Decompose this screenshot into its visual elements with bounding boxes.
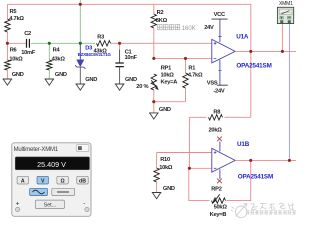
svg-text:R2: R2 [157, 10, 164, 16]
annotation gray note 160K for R2 [158, 25, 180, 30]
multimeter XMM1 instrument icon [277, 1, 293, 23]
node junction dots green net [48, 42, 82, 45]
wire left column through R5 [6, 4, 8, 43]
svg-text:50kΩ: 50kΩ [214, 205, 228, 211]
svg-text:A: A [21, 179, 25, 185]
svg-text:RP1: RP1 [161, 66, 171, 72]
svg-text:Key=B: Key=B [210, 212, 227, 218]
svg-text:VSS: VSS [207, 81, 218, 87]
svg-text:10kΩ: 10kΩ [161, 73, 175, 79]
ground for D3 [76, 84, 86, 90]
op-amp U1A [212, 19, 272, 85]
svg-text:Ω: Ω [61, 179, 65, 185]
svg-text:10kΩ: 10kΩ [9, 56, 23, 62]
svg-text:U1A: U1A [236, 34, 249, 41]
svg-text:R6: R6 [10, 48, 17, 54]
wire main node line red section R3 to U1A + input [111, 42, 212, 44]
svg-text:GND: GND [159, 107, 171, 113]
ground for C1 [115, 84, 125, 90]
svg-text:Key=A: Key=A [161, 80, 178, 86]
resistor R1 [183, 58, 203, 101]
svg-text:XMM1: XMM1 [279, 1, 293, 7]
svg-text:dB: dB [79, 179, 86, 185]
svg-text:8KΩ: 8KΩ [156, 18, 168, 24]
svg-text:GND: GND [125, 77, 137, 83]
resistor R5 [5, 9, 25, 32]
power VCC 24V [204, 12, 227, 31]
wire green riser from top edge to zener node [79, 0, 81, 43]
wire XMM1 - probe (blue) [288, 24, 290, 161]
svg-text:GND: GND [85, 77, 97, 83]
resistor R10 [154, 153, 173, 193]
svg-text:U1B: U1B [237, 141, 250, 148]
svg-text:R4: R4 [53, 48, 61, 54]
svg-text:+: + [16, 200, 20, 207]
wire U1B non-inverting input line [157, 152, 212, 154]
svg-text:OPA2541SM: OPA2541SM [236, 62, 271, 69]
no-connect X marks U1B power pins [217, 137, 222, 184]
watermark logo and text (decorative) [231, 204, 247, 218]
op-amp U1B [212, 141, 273, 181]
svg-text:R8: R8 [213, 110, 220, 116]
wire U1A output line [235, 50, 296, 52]
wire XMM1 + probe (red) [281, 24, 283, 52]
svg-text:BZX84C6V2LT1G: BZX84C6V2LT1G [78, 52, 112, 57]
ground for RP1 R1 [149, 113, 159, 119]
wire main node line green section C2 to R3 [31, 42, 95, 44]
svg-text:C2: C2 [24, 31, 31, 37]
wire RP1 R1 bottom rung to ground [154, 90, 186, 113]
svg-text:10kΩ: 10kΩ [159, 165, 173, 171]
svg-text:R1: R1 [188, 66, 195, 72]
svg-text:V: V [41, 179, 45, 185]
capacitor C1 [115, 43, 137, 84]
wire U1B output line [235, 159, 296, 161]
svg-text:R3: R3 [97, 35, 104, 41]
capacitor C2 [21, 31, 36, 56]
resistor R6 [5, 43, 23, 79]
resistor R2 [151, 4, 167, 58]
svg-text:GND: GND [12, 72, 24, 78]
wire top excitation bus from R5 to U1A output column [7, 4, 250, 117]
wire R8 to U1B inverting input column [189, 117, 211, 168]
svg-text:10mF: 10mF [21, 50, 36, 56]
power VSS -24V [207, 81, 228, 95]
zener diode D3 [75, 43, 111, 84]
svg-text:20kΩ: 20kΩ [209, 127, 223, 133]
svg-text:D3: D3 [85, 45, 93, 51]
svg-text:R5: R5 [10, 9, 17, 15]
resistor R4 [47, 43, 66, 79]
svg-text:OPA2541SM: OPA2541SM [238, 173, 273, 180]
resistor R3 [94, 35, 111, 55]
potentiometer RP2 feedback loop [189, 160, 251, 217]
potentiometer RP1 [136, 66, 177, 91]
svg-text:GND: GND [163, 186, 175, 192]
svg-text:R10: R10 [160, 157, 170, 163]
ground for R6 [3, 79, 13, 85]
svg-text:-24V: -24V [213, 89, 224, 95]
node junction dots [6, 3, 291, 170]
svg-text:4.7kΩ: 4.7kΩ [188, 73, 203, 79]
svg-text:10nF: 10nF [125, 55, 138, 61]
svg-text:Multimeter-XMM1: Multimeter-XMM1 [14, 147, 59, 153]
svg-text:160K: 160K [182, 26, 196, 32]
ground for R10 [152, 193, 162, 199]
ground for R4 [45, 79, 55, 85]
resistor R8 [189, 110, 250, 134]
svg-text:GND: GND [55, 72, 67, 78]
svg-text:24V: 24V [204, 25, 214, 31]
svg-text:Set...: Set... [44, 202, 57, 208]
svg-text:4.7kΩ: 4.7kΩ [9, 16, 24, 22]
svg-text:RP2: RP2 [211, 187, 221, 193]
svg-text:25.409 V: 25.409 V [37, 160, 66, 169]
wire main node line left (red section) [7, 42, 26, 44]
svg-text:43kΩ: 43kΩ [52, 56, 66, 62]
wire U1A lower input line [154, 57, 212, 59]
svg-text:20 %: 20 % [136, 84, 148, 90]
svg-text:-: - [83, 200, 85, 207]
svg-text:VCC: VCC [214, 12, 225, 18]
multimeter XMM1 window [12, 143, 91, 217]
